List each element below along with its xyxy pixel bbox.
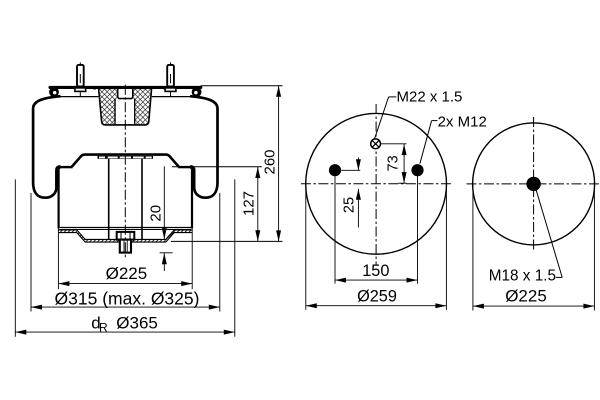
piston crimp band: [98, 156, 154, 159]
svg-text:Ø225: Ø225: [106, 264, 148, 283]
dim 127: [241, 167, 261, 241]
extension lines circle (dia 259): [306, 184, 447, 310]
center line vertical: [533, 117, 535, 251]
svg-text:Ø365: Ø365: [116, 313, 158, 332]
piston inner column: [109, 159, 142, 240]
center line vertical: [375, 104, 377, 266]
extension lines bellows (dia 315): [31, 193, 220, 312]
svg-text:25: 25: [341, 197, 357, 213]
svg-text:M18 x 1.5: M18 x 1.5: [489, 267, 556, 284]
dim dia315 max325: [31, 288, 220, 309]
top plate lower line: [59, 96, 192, 98]
stud right: [165, 62, 176, 96]
leader M18: [536, 191, 562, 278]
dim 73: [381, 144, 407, 183]
leader 2x M12: [420, 121, 438, 164]
svg-text:Ø315 (max. Ø325): Ø315 (max. Ø325): [55, 288, 200, 308]
piston side walls: [59, 168, 192, 229]
plate rivet ticks: [93, 86, 166, 90]
svg-text:Ø225: Ø225: [505, 287, 547, 306]
center line left figure: [124, 85, 126, 259]
center line horizontal: [467, 183, 600, 185]
label M22 x 1.5: [397, 89, 463, 106]
extension lines piston walls (dia 225): [58, 229, 192, 290]
rolled bead right: [192, 87, 202, 97]
top plate bar: [50, 86, 201, 89]
svg-text:20: 20: [148, 205, 165, 222]
piston top plate: [59, 155, 191, 168]
dim 150: [335, 262, 418, 283]
bottom stud: [120, 240, 131, 253]
bottom view circle: [473, 123, 595, 245]
stud left: [75, 62, 86, 96]
extension lines circle (dia 225): [473, 184, 595, 311]
label M18 x 1.5: [489, 267, 556, 284]
svg-text:R: R: [99, 321, 108, 335]
dim 260: [262, 86, 282, 242]
top view circle: [306, 113, 447, 254]
extension line top (260 dim, from top plate): [201, 85, 283, 87]
svg-text:127: 127: [241, 191, 258, 216]
leader M22: [374, 97, 396, 140]
dim 20: [148, 166, 173, 271]
svg-text:2x M12: 2x M12: [438, 114, 487, 131]
svg-text:M22 x 1.5: M22 x 1.5: [397, 89, 463, 106]
extension line bottom plate (260/127 bottom ref): [171, 240, 283, 242]
svg-text:73: 73: [386, 155, 402, 171]
bottom boss nut: [117, 232, 135, 240]
svg-text:150: 150: [362, 262, 389, 280]
bellows outer wall left: [33, 96, 60, 198]
bolt M12 right: [411, 164, 423, 176]
dim 25: [341, 158, 361, 228]
bolt M12 left: [329, 164, 341, 176]
extension line piston ledge (127 dim top ref): [172, 166, 262, 168]
svg-text:260: 260: [262, 149, 279, 174]
dim dia259: [306, 287, 447, 308]
bottom plate hatched strip: [59, 230, 193, 242]
rubber bumper: [99, 88, 152, 125]
dim dR dia365: [15, 313, 235, 334]
bellows outer wall right: [190, 96, 217, 198]
extension lines bolts (150 dim): [335, 171, 418, 284]
rolled bead left: [49, 87, 59, 97]
M22 air port symbol: [371, 139, 381, 149]
svg-text:Ø259: Ø259: [357, 287, 397, 305]
label 2x M12: [438, 114, 487, 131]
center line horizontal: [301, 183, 452, 185]
extension lines dR dia 365: [15, 179, 235, 336]
piston bottom double line: [60, 227, 191, 229]
dim dia225 right: [473, 287, 595, 309]
dim dia225 left: [58, 264, 192, 286]
M18 center boss: [526, 177, 540, 191]
